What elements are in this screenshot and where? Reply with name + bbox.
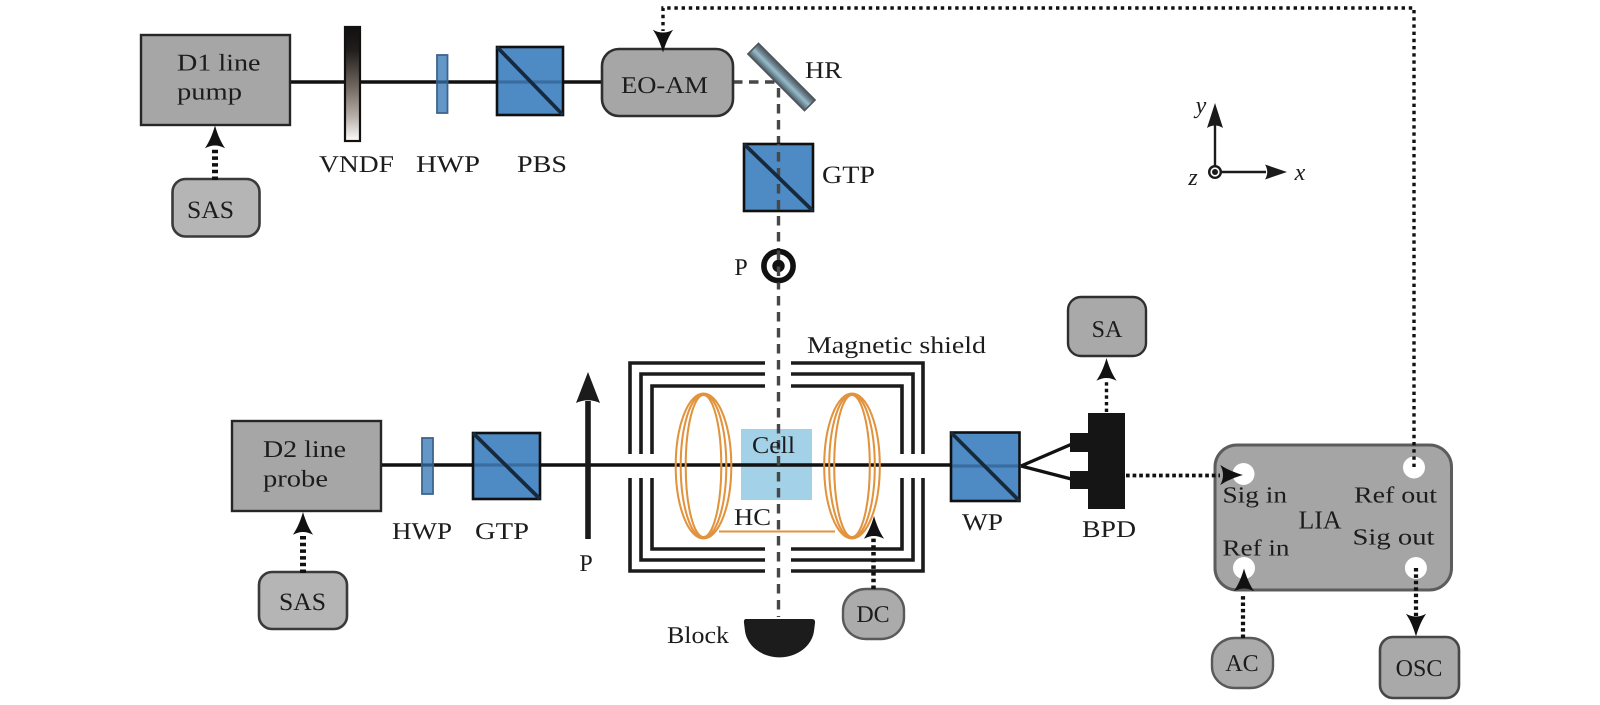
mirror HR: [748, 43, 815, 110]
svg-text:GTP: GTP: [475, 519, 529, 545]
wire pump beam D1 to EO-AM: [290, 80, 602, 83]
wire dotted DC to coil: [864, 516, 884, 589]
label LIA: [1299, 506, 1342, 535]
svg-text:z: z: [1187, 165, 1198, 191]
laser D2 line probe: [232, 421, 381, 511]
svg-text:P: P: [734, 255, 747, 281]
laser D1 line pump: [141, 35, 290, 125]
svg-text:Block: Block: [667, 623, 729, 649]
amplifier LIA: [1215, 445, 1452, 590]
wire dotted Sig out to OSC: [1406, 568, 1426, 637]
svg-text:probe: probe: [263, 467, 328, 493]
wire coil link: [719, 530, 835, 532]
label HR: [805, 58, 842, 84]
label Block: [667, 623, 729, 649]
svg-text:VNDF: VNDF: [319, 152, 394, 178]
svg-text:DC: DC: [856, 602, 889, 628]
label Sig out: [1353, 525, 1436, 550]
wire WP to BPD lower: [1021, 466, 1079, 481]
wire dashed pump path EO-AM to HR: [733, 80, 776, 83]
svg-text:EO-AM: EO-AM: [621, 73, 708, 99]
source DC: [843, 589, 904, 639]
coil HC left: [676, 394, 732, 539]
label axis y: [1194, 93, 1207, 119]
label SAS lower: [279, 589, 326, 616]
svg-text:BPD: BPD: [1082, 517, 1136, 543]
svg-text:Magnetic shield: Magnetic shield: [807, 333, 986, 359]
magnetic shield inner layer: [652, 386, 902, 549]
wire WP to BPD upper: [1021, 441, 1079, 466]
label DC: [856, 602, 889, 628]
svg-text:HWP: HWP: [392, 519, 452, 545]
svg-text:LIA: LIA: [1299, 506, 1342, 535]
svg-text:SAS: SAS: [279, 589, 326, 616]
modulator EO-AM: [602, 49, 733, 116]
svg-text:AC: AC: [1225, 651, 1258, 677]
label D1 line pump: [177, 51, 261, 106]
node P probe polarization marker: [764, 251, 793, 285]
analyzer SA: [1068, 297, 1146, 356]
svg-text:pump: pump: [177, 80, 242, 106]
svg-text:Sig in: Sig in: [1223, 483, 1288, 508]
waveplate HWP lower: [422, 438, 433, 494]
label HWP lower: [392, 519, 452, 545]
svg-text:HC: HC: [734, 505, 771, 531]
polarizer WP: [951, 433, 1020, 502]
label BPD: [1082, 517, 1136, 543]
svg-text:Ref in: Ref in: [1223, 536, 1291, 561]
svg-text:SAS: SAS: [187, 197, 234, 224]
svg-text:OSC: OSC: [1396, 656, 1443, 682]
wire dashed pump path HR down to Block: [777, 88, 780, 617]
svg-text:PBS: PBS: [517, 152, 567, 178]
svg-text:WP: WP: [962, 510, 1003, 536]
label Cell: [752, 433, 795, 459]
wire probe beam D2 to WP: [381, 463, 952, 466]
module SAS upper: [173, 179, 260, 237]
wire dotted BPD to Sig in: [1126, 465, 1243, 485]
photodetector BPD: [1070, 413, 1125, 509]
label SA: [1092, 317, 1123, 343]
wire dotted SAS to D1: [205, 126, 225, 181]
wire dotted BPD to SA: [1096, 358, 1116, 412]
svg-text:Sig out: Sig out: [1353, 525, 1436, 550]
label Sig in: [1223, 483, 1288, 508]
svg-text:x: x: [1294, 160, 1306, 186]
label P lower: [579, 551, 592, 577]
svg-text:GTP: GTP: [822, 162, 875, 189]
svg-text:y: y: [1194, 93, 1207, 119]
label Ref in: [1223, 536, 1291, 561]
axes xyz: [1207, 103, 1287, 180]
label Magnetic shield: [807, 333, 986, 359]
label Ref out: [1354, 483, 1438, 508]
source AC: [1212, 638, 1273, 688]
filter VNDF: [345, 27, 360, 141]
magnetic shield outer layer: [630, 363, 923, 571]
label HC: [734, 505, 771, 531]
label OSC: [1396, 656, 1443, 682]
scope OSC: [1380, 637, 1459, 698]
svg-text:D2 line: D2 line: [263, 437, 346, 463]
label axis x: [1294, 160, 1306, 186]
wire dotted AC to Ref in: [1234, 569, 1254, 639]
svg-text:Cell: Cell: [752, 433, 795, 459]
svg-text:SA: SA: [1092, 317, 1123, 343]
label SAS upper: [187, 197, 234, 224]
label VNDF: [319, 152, 394, 178]
label PBS: [517, 152, 567, 178]
wire dotted feedback Ref out to EO-AM: [653, 8, 1414, 467]
arrow P pump polarization: [576, 372, 600, 539]
label HWP upper: [416, 152, 480, 178]
waveplate HWP upper: [437, 55, 448, 113]
coil HC right: [824, 394, 880, 539]
label AC: [1225, 651, 1258, 677]
label D2 line probe: [263, 437, 346, 493]
label axis z: [1187, 165, 1198, 191]
magnetic shield middle layer: [641, 374, 913, 560]
svg-text:HWP: HWP: [416, 152, 480, 178]
wire dotted SAS to D2: [293, 512, 313, 573]
svg-text:Ref out: Ref out: [1354, 483, 1438, 508]
label GTP upper: [822, 162, 875, 189]
block beam dump: [744, 619, 815, 657]
polarizer GTP lower: [473, 433, 540, 499]
label P upper: [734, 255, 747, 281]
module SAS lower: [259, 572, 347, 629]
polarizer PBS: [497, 47, 563, 115]
label GTP lower: [475, 519, 529, 545]
label EO-AM: [621, 73, 708, 99]
svg-text:P: P: [579, 551, 592, 577]
svg-text:HR: HR: [805, 58, 842, 84]
cell: [741, 429, 812, 500]
label WP: [962, 510, 1003, 536]
polarizer GTP upper: [744, 144, 813, 211]
svg-text:D1 line: D1 line: [177, 51, 261, 77]
